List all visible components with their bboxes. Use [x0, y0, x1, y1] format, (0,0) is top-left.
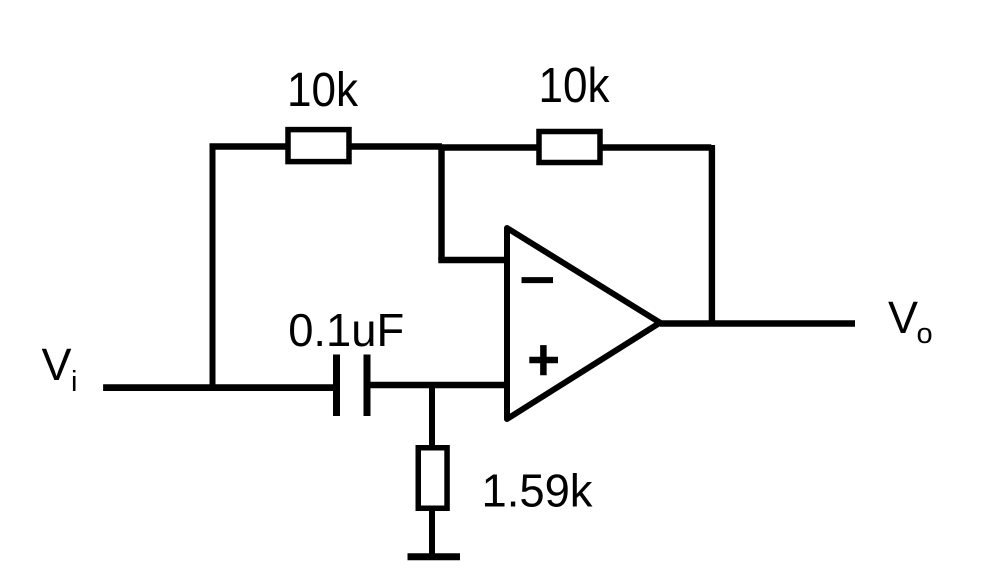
wire top-right horizontal (node A to R2 to right rail): [441, 144, 711, 150]
capacitor C1 left plate: [333, 355, 340, 417]
svg-text:V: V: [888, 292, 918, 343]
wire branch vertical (down to R3): [429, 385, 435, 446]
op-amp U1 plus symbol: [529, 345, 558, 375]
wire Vi horizontal (to capacitor): [103, 384, 334, 391]
svg-text:o: o: [917, 318, 933, 350]
wire right vertical (feedback from R2 down to output): [709, 145, 715, 325]
svg-text:V: V: [42, 339, 72, 390]
svg-text:10k: 10k: [539, 58, 610, 113]
wire top-left horizontal (to R1 and node A): [210, 143, 443, 149]
svg-text:0.1uF: 0.1uF: [288, 304, 404, 356]
wire node A vertical (down to inverting input): [438, 145, 444, 261]
svg-text:1.59k: 1.59k: [482, 464, 594, 516]
wire R3 to ground: [429, 510, 435, 555]
op-amp U1: [507, 228, 660, 419]
op-amp U1 minus symbol: [522, 277, 554, 283]
capacitor C1 right plate: [364, 355, 371, 417]
wire inverting input horizontal: [438, 257, 508, 263]
wire output horizontal: [660, 320, 855, 327]
resistor R3: [418, 448, 447, 509]
resistor R1: [288, 130, 349, 162]
wire left vertical (Vi node up to top feedback rail): [210, 144, 216, 391]
svg-text:i: i: [71, 366, 77, 398]
resistor R2: [539, 132, 600, 163]
ground: [408, 553, 461, 560]
svg-text:10k: 10k: [287, 64, 359, 117]
wire noninverting input horizontal (cap to op-amp): [369, 382, 508, 388]
